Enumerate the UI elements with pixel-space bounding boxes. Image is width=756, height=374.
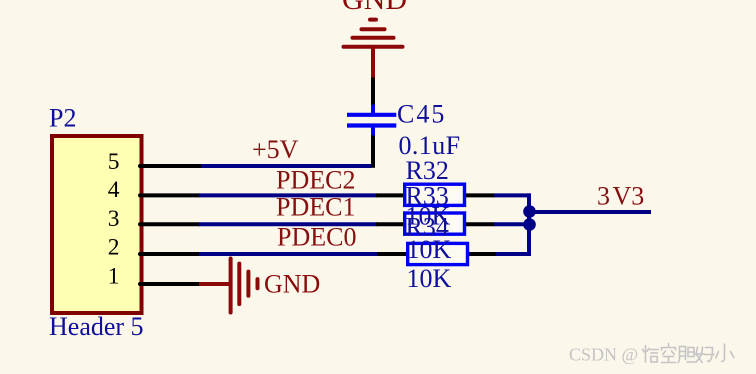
- svg-text:R34: R34: [406, 213, 449, 242]
- svg-text:C45: C45: [397, 100, 446, 129]
- svg-text:PDEC2: PDEC2: [276, 165, 355, 194]
- resistor R33 right pin (black): [465, 222, 495, 226]
- svg-text:GND: GND: [264, 270, 320, 299]
- 悟: [643, 346, 659, 363]
- svg-text:3: 3: [108, 206, 120, 232]
- svg-text:5: 5: [108, 149, 120, 175]
- wire pin1 to GND (maroon): [199, 282, 232, 286]
- resistor R34 left pin (black): [377, 252, 408, 256]
- capacitor C45: [347, 105, 396, 137]
- resistor R33 left pin (black): [376, 222, 405, 226]
- 小: [716, 344, 734, 362]
- svg-text:3V3: 3V3: [597, 182, 644, 211]
- svg-text:10K: 10K: [407, 264, 452, 293]
- wire (capacitor bottom pin to +5V wire, black segment): [371, 136, 375, 168]
- wire PDEC2 (navy): [199, 193, 377, 197]
- pin 5 line: [140, 164, 200, 168]
- wire PDEC0 (navy): [199, 252, 377, 256]
- svg-text:CSDN @: CSDN @: [569, 345, 638, 365]
- svg-text:GND: GND: [342, 0, 407, 16]
- svg-text:PDEC1: PDEC1: [276, 193, 355, 222]
- 空: [662, 344, 676, 363]
- pin 1 line: [140, 282, 200, 286]
- resistor R34 body: [408, 243, 468, 264]
- wire R34 output to junction (navy): [496, 240, 529, 254]
- resistor R34 right pin (black): [468, 252, 497, 256]
- header P2 body: [52, 136, 142, 313]
- power port GND (top) symbol: [344, 20, 403, 78]
- junction dot lower: [523, 218, 536, 231]
- wire R32 output to junction (navy): [494, 195, 529, 209]
- svg-text:R33: R33: [406, 182, 449, 211]
- svg-text:1: 1: [108, 264, 120, 290]
- power port GND (right of pin 1) symbol: [231, 259, 258, 313]
- svg-text:+5V: +5V: [252, 135, 299, 164]
- svg-text:R32: R32: [406, 156, 449, 185]
- pin 4 line: [140, 193, 200, 197]
- svg-text:2: 2: [108, 235, 120, 261]
- 好: [696, 347, 715, 363]
- pin 3 line: [140, 222, 200, 226]
- wire (GND stem to capacitor, black segment): [371, 78, 375, 106]
- 胆: [678, 347, 695, 363]
- wire PDEC1 (navy): [199, 222, 377, 226]
- resistor R33 body: [405, 213, 465, 234]
- wire 3V3 (navy): [529, 210, 651, 214]
- resistor R32 right pin (black): [465, 193, 495, 197]
- svg-text:P2: P2: [49, 104, 76, 133]
- wire +5V (navy): [199, 164, 371, 168]
- svg-text:PDEC0: PDEC0: [277, 223, 356, 252]
- watermark CJK glyphs (drawn): [643, 344, 734, 363]
- pin 2 line: [140, 252, 200, 256]
- resistor R32 body: [405, 184, 465, 205]
- wire junction vertical (navy): [527, 193, 531, 255]
- junction dot upper: [523, 205, 536, 218]
- resistor R32 left pin (black): [376, 193, 405, 197]
- svg-text:4: 4: [108, 177, 120, 203]
- wire R33 output to junction (navy): [494, 222, 529, 226]
- svg-text:Header 5: Header 5: [49, 312, 144, 341]
